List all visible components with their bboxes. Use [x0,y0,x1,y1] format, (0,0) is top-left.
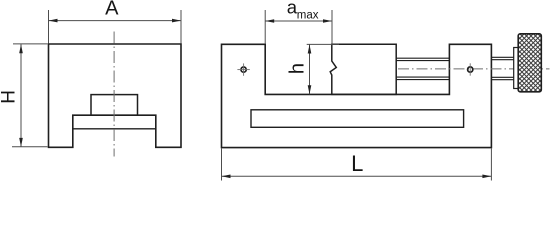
vise body outline (side view) [222,44,492,147]
dimension line a_max [265,20,332,22]
extension line H top [13,43,48,45]
screw spindle right of bracket [491,57,513,79]
dimension line h [309,45,311,95]
base slot (side view) [251,110,464,128]
vise body outline (front view) [49,44,182,147]
arrow A right [172,19,181,23]
arrow L left [222,175,231,179]
extension line a_max right [331,10,333,44]
screw spindle between jaw and bracket [396,58,449,79]
dimension line H [20,44,22,147]
svg-text:H: H [0,90,19,104]
arrow h bottom [308,85,312,94]
arrow a_max left [265,19,274,23]
extension line A right [180,10,182,44]
extension line A left [48,10,50,44]
dimension line A [49,20,182,22]
svg-text:A: A [105,0,119,20]
extension line L left [221,149,223,181]
extension line a_max left [264,10,266,44]
hole in end bracket [468,63,473,75]
centerline (front view) [113,32,115,157]
knurled knob [518,34,541,92]
screw centerline [398,68,550,70]
hole in fixed jaw [237,63,249,75]
collar before knob [514,48,519,89]
arrow L right [482,175,491,179]
svg-text:L: L [351,151,363,176]
arrow h top [308,45,312,54]
arrow a_max right [323,19,332,23]
dimension line L [222,175,492,177]
slide plate bottom line (front view) [73,128,156,130]
movable jaw with break mark (side view) [330,44,396,94]
arrow H top [19,44,23,53]
extension line H bottom [12,146,48,148]
extension line L right [490,149,492,181]
extension line h top [307,43,339,45]
arrow H bottom [19,138,23,147]
movable jaw block (front view) [91,95,138,116]
svg-text:max: max [297,10,319,22]
arrow A left [49,19,58,23]
svg-text:h: h [287,63,309,74]
